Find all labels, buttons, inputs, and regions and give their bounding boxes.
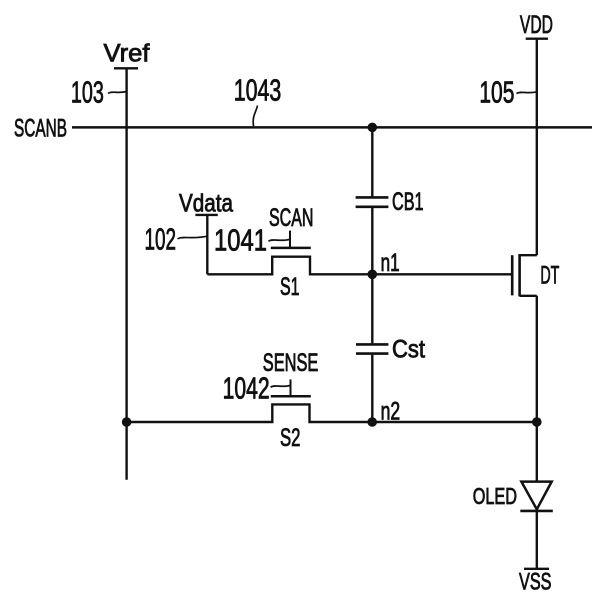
terminal bar Vdata bbox=[195, 214, 217, 216]
svg-text:103: 103 bbox=[71, 75, 104, 110]
wire SCANB horizontal bus bbox=[72, 126, 592, 129]
svg-text:S1: S1 bbox=[280, 273, 300, 301]
svg-text:1043: 1043 bbox=[234, 72, 282, 107]
junction dot Vref x n2 row bbox=[122, 417, 132, 427]
capacitor Cst top plate bbox=[356, 343, 388, 346]
leader line 1041 bbox=[269, 239, 291, 241]
svg-text:CB1: CB1 bbox=[392, 188, 424, 216]
svg-text:SCAN: SCAN bbox=[269, 204, 314, 232]
svg-text:102: 102 bbox=[145, 221, 177, 256]
svg-text:VDD: VDD bbox=[520, 11, 553, 39]
transistor DT gate bar bbox=[511, 255, 514, 295]
wire CB1 bottom lead bbox=[371, 208, 373, 274]
wire n1 row with transistor S1 channel bump bbox=[207, 257, 512, 275]
svg-text:S2: S2 bbox=[280, 424, 301, 452]
leader line 102 bbox=[178, 236, 208, 239]
wire Vref vertical line bbox=[125, 68, 127, 479]
capacitor CB1 bottom plate bbox=[356, 206, 389, 209]
svg-text:Vref: Vref bbox=[104, 40, 150, 68]
junction dot node n1 bbox=[368, 270, 378, 280]
diode OLED cathode bar bbox=[520, 510, 553, 513]
svg-text:Vdata: Vdata bbox=[179, 190, 233, 218]
capacitor Cst bottom plate bbox=[356, 352, 388, 355]
transistor DT channel bar bbox=[518, 254, 521, 296]
capacitor CB1 top plate bbox=[356, 196, 389, 199]
svg-text:SCANB: SCANB bbox=[14, 114, 67, 142]
leader line 1042 bbox=[271, 385, 291, 387]
wire VDD vertical to DT drain bbox=[536, 39, 538, 256]
svg-text:SENSE: SENSE bbox=[263, 349, 319, 377]
svg-text:n2: n2 bbox=[381, 397, 401, 425]
svg-text:105: 105 bbox=[479, 75, 514, 110]
transistor DT source arm bbox=[520, 295, 537, 297]
terminal bar Vref bbox=[114, 67, 138, 69]
svg-text:1042: 1042 bbox=[223, 371, 270, 406]
wire n2 row with transistor S2 channel bump bbox=[127, 404, 537, 422]
wire OLED cathode to VSS bbox=[536, 511, 538, 569]
svg-text:n1: n1 bbox=[381, 249, 400, 277]
transistor S2 gate contact tick bbox=[290, 379, 292, 396]
transistor DT drain arm bbox=[520, 254, 537, 256]
junction dot node n2 bbox=[367, 417, 377, 427]
svg-text:Cst: Cst bbox=[392, 335, 425, 363]
svg-text:1041: 1041 bbox=[214, 222, 267, 257]
terminal bar VSS bbox=[524, 568, 549, 570]
svg-text:VSS: VSS bbox=[519, 568, 552, 595]
wire Cst bottom lead bbox=[371, 355, 373, 422]
transistor S1 gate contact tick bbox=[289, 231, 291, 248]
svg-text:DT: DT bbox=[540, 261, 559, 289]
wire Cst top lead bbox=[371, 274, 373, 343]
svg-text:OLED: OLED bbox=[473, 483, 517, 509]
wire OLED anode lead bbox=[536, 422, 538, 482]
leader line 105 bbox=[517, 92, 537, 94]
wire DT source to n2 row bbox=[536, 296, 538, 422]
junction dot SCANB x CB1 bbox=[368, 123, 378, 133]
wire CB1 top lead bbox=[371, 127, 373, 196]
diode OLED triangle bbox=[521, 482, 551, 510]
terminal bar VDD bbox=[526, 38, 548, 40]
junction dot DT source x n2 row bbox=[532, 417, 542, 427]
leader line 1043 bbox=[253, 106, 257, 127]
transistor S1 gate bar bbox=[271, 247, 311, 250]
leader line 103 bbox=[108, 92, 127, 94]
wire Vdata vertical bbox=[206, 215, 208, 274]
transistor S2 gate bar bbox=[271, 395, 311, 398]
